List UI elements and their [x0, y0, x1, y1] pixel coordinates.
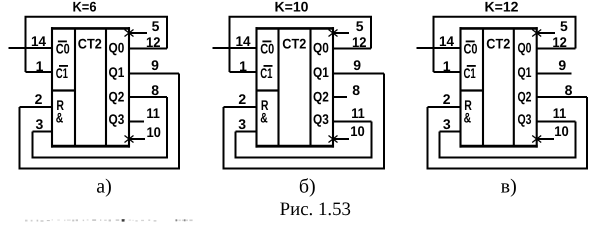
counter DD1 control/reset section divider: [52, 89, 75, 91]
svg-text:3: 3: [36, 116, 44, 132]
svg-text:K=12: K=12: [485, 0, 519, 15]
svg-text:3: 3: [443, 116, 451, 132]
wire Q0 output pin 12 of DD2: [333, 48, 371, 50]
svg-text:2: 2: [35, 91, 43, 107]
svg-text:Q3: Q3: [313, 111, 329, 127]
counter DD1 right column divider: [105, 28, 107, 146]
wire feedback to pin 2 of DD1 (left vertical + bottom run): [20, 74, 180, 169]
svg-text:14: 14: [439, 33, 454, 49]
scan artifact marks: [25, 219, 193, 222]
schematic c) divide-by-12 counter: [417, 0, 588, 169]
svg-text:Q0: Q0: [518, 40, 532, 56]
svg-text:C1: C1: [56, 65, 68, 81]
cross mark on pin 5: [125, 30, 134, 37]
svg-text:Q1: Q1: [518, 64, 532, 80]
svg-text:Q1: Q1: [109, 64, 125, 80]
svg-text:1: 1: [443, 58, 451, 74]
wire feedback vertical from pin 11 (Q3) back to pin 3 of DD2: [371, 122, 373, 158]
svg-text:б): б): [299, 176, 316, 198]
svg-text:5: 5: [356, 18, 364, 34]
wire pin 1 (C1) input stub of DD2: [230, 71, 257, 73]
svg-text:12: 12: [352, 34, 367, 50]
cross mark on pin 10: [329, 136, 338, 143]
svg-text:Q3: Q3: [109, 111, 125, 127]
svg-text:1: 1: [239, 58, 247, 74]
counter DD2 body left edge: [255, 27, 257, 148]
counter DD2 control/reset section divider: [257, 89, 279, 91]
counter DD2 input label C1 (inverted): [260, 65, 272, 81]
wire feedback to pin 2 of DD2 (left vertical + bottom run): [224, 74, 385, 169]
svg-text:10: 10: [350, 123, 365, 139]
counter DD3 body bottom edge: [460, 145, 538, 148]
wire feedback to pin 3 of DD1 (left vertical + bottom run): [33, 97, 168, 158]
counter DD2 body bottom edge: [256, 145, 335, 148]
svg-text:2: 2: [443, 91, 451, 107]
counter DD3 right column divider: [513, 28, 515, 146]
wire reset pin 2 of DD2: [224, 106, 257, 108]
svg-text:3: 3: [238, 116, 246, 132]
svg-text:5: 5: [152, 18, 160, 34]
svg-text:C1: C1: [464, 65, 476, 81]
wire reset pin 3 of DD2: [236, 131, 257, 133]
wire Q3 output pin 11 of DD1: [129, 121, 144, 123]
counter DD3 left column divider: [482, 28, 484, 146]
svg-text:Q0: Q0: [109, 40, 125, 56]
wire feedback vertical from pin 9 (Q1) back to pin 2 of DD2: [383, 74, 385, 169]
counter DD1 body right edge: [128, 27, 130, 148]
svg-text:14: 14: [31, 33, 46, 49]
wire Q0 feedback top segment to pin 1 (C1) of DD3: [434, 17, 576, 72]
wire reset pin 2 of DD1: [20, 106, 53, 108]
svg-text:K=10: K=10: [275, 0, 309, 15]
counter DD2 input label C0 (inverted): [260, 41, 274, 57]
wire feedback to pin 3 of DD3 (left vertical + bottom run): [440, 122, 576, 158]
wire clock input to pin 14 (C0) of DD2: [213, 47, 257, 49]
counter DD1 left column divider: [74, 28, 76, 146]
svg-text:Q2: Q2: [313, 89, 329, 105]
svg-text:Q2: Q2: [109, 89, 125, 105]
svg-text:11: 11: [553, 105, 567, 121]
counter DD1 body left edge: [51, 27, 53, 148]
counter DD2 (CT2) body top edge: [256, 27, 335, 30]
wire reset pin 2 of DD3: [428, 106, 461, 108]
svg-text:10: 10: [146, 124, 161, 140]
wire feedback vertical from pin 11 (Q3) back to pin 3 of DD3: [575, 122, 577, 158]
wire reset pin 3 of DD3: [440, 131, 461, 133]
counter DD1 body bottom edge: [51, 145, 130, 148]
svg-text:C0: C0: [56, 41, 70, 57]
counter DD1 (CT2) body top edge: [51, 27, 130, 30]
svg-text:5: 5: [560, 18, 568, 34]
svg-text:9: 9: [151, 57, 159, 73]
schematic a) divide-by-6 counter: [9, 0, 180, 169]
svg-text:C0: C0: [260, 41, 274, 57]
svg-text:C1: C1: [260, 65, 272, 81]
svg-text:&: &: [56, 110, 64, 126]
pin 5 stub of DD3 (unused, crossed out): [537, 32, 555, 34]
wire Q0 feedback top segment to pin 1 (C1) of DD2: [230, 17, 372, 72]
counter DD1 input label C1 (inverted): [56, 65, 68, 81]
pin 5 stub of DD2 (unused, crossed out): [333, 32, 349, 34]
svg-text:12: 12: [146, 34, 161, 50]
wire clock input to pin 14 (C0) of DD1: [9, 47, 53, 49]
svg-text:Q1: Q1: [313, 64, 329, 80]
svg-text:K=6: K=6: [73, 0, 97, 15]
svg-text:8: 8: [565, 82, 573, 98]
wire feedback vertical from pin 8 (Q2) back to pin 2 of DD3: [586, 97, 588, 169]
svg-text:11: 11: [351, 105, 365, 121]
svg-text:а): а): [96, 176, 112, 198]
svg-text:14: 14: [236, 33, 251, 49]
pin 5 stub of DD1 (unused, crossed out): [129, 32, 147, 34]
counter DD2 left column divider: [277, 28, 279, 146]
svg-text:9: 9: [353, 57, 361, 73]
wire pin 1 (C1) input stub of DD3: [434, 71, 461, 73]
wire Q3 output pin 11 of DD2: [333, 121, 372, 123]
counter DD3 body left edge: [459, 27, 461, 148]
svg-text:&: &: [260, 110, 268, 126]
cross mark on pin 5: [329, 30, 338, 37]
svg-text:Q3: Q3: [518, 111, 532, 127]
wire Q2 output pin 8 of DD1: [129, 96, 167, 98]
cross mark on pin 5: [532, 30, 541, 37]
svg-text:CT2: CT2: [78, 36, 102, 52]
svg-text:Рис. 1.53: Рис. 1.53: [280, 199, 351, 220]
wire Q1 output pin 9 of DD2: [333, 73, 384, 75]
svg-text:Q2: Q2: [518, 89, 532, 105]
wire Q0 feedback top segment to pin 1 (C1) of DD1: [26, 17, 168, 72]
wire Q1 output pin 9 of DD1: [129, 73, 179, 75]
wire Q3 output pin 11 of DD3: [537, 121, 576, 123]
counter DD2 right column divider: [309, 28, 311, 146]
pin 10 stub of DD1 (unused, crossed out): [129, 138, 145, 140]
svg-text:8: 8: [352, 82, 360, 98]
wire Q2 output pin 8 of DD3: [537, 96, 587, 98]
wire Q2 output pin 8 of DD2: [333, 96, 347, 98]
svg-text:Q0: Q0: [313, 40, 329, 56]
pin 10 stub of DD3 (unused, crossed out): [537, 138, 554, 140]
svg-text:10: 10: [554, 123, 569, 139]
cross mark on pin 10: [125, 136, 134, 143]
wire feedback vertical from pin 8 (Q2) back to pin 3 of DD1: [166, 97, 168, 158]
schematic b) divide-by-10 counter: [213, 0, 385, 169]
svg-text:CT2: CT2: [282, 36, 306, 52]
svg-text:1: 1: [36, 58, 44, 74]
svg-text:12: 12: [552, 34, 567, 50]
counter DD3 input label C1 (inverted): [464, 65, 476, 81]
pin 10 stub of DD2 (unused, crossed out): [333, 138, 349, 140]
svg-text:2: 2: [238, 91, 246, 107]
counter DD3 input label C0 (inverted): [464, 41, 478, 57]
counter DD3 body right edge: [536, 27, 538, 148]
counter DD2 body right edge: [332, 27, 334, 148]
counter DD1 input label C0 (inverted): [56, 41, 70, 57]
svg-text:в): в): [501, 176, 517, 198]
counter DD3 (CT2) body top edge: [460, 27, 538, 30]
svg-text:C0: C0: [464, 41, 478, 57]
svg-text:CT2: CT2: [486, 36, 510, 52]
svg-text:&: &: [464, 110, 472, 126]
svg-text:8: 8: [151, 82, 159, 98]
svg-text:11: 11: [146, 105, 160, 121]
wire pin 1 (C1) input stub of DD1: [26, 71, 53, 73]
wire Q0 output pin 12 of DD1: [129, 48, 167, 50]
wire feedback to pin 2 of DD3 (left vertical + bottom run): [428, 97, 588, 169]
wire feedback vertical from pin 9 (Q1) back to pin 2 of DD1: [178, 74, 180, 169]
wire clock input to pin 14 (C0) of DD3: [417, 47, 461, 49]
counter DD3 control/reset section divider: [461, 89, 484, 91]
wire Q1 output pin 9 of DD3: [537, 73, 572, 75]
cross mark on pin 10: [532, 136, 541, 143]
wire feedback to pin 3 of DD2 (left vertical + bottom run): [236, 122, 372, 158]
svg-text:9: 9: [558, 57, 566, 73]
wire reset pin 3 of DD1: [33, 131, 53, 133]
wire Q0 output pin 12 of DD3: [537, 48, 576, 50]
